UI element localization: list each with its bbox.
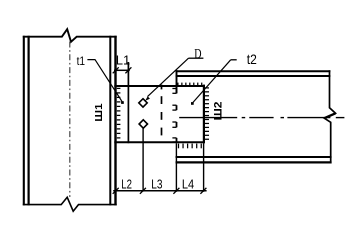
svg-text:Ш1: Ш1 xyxy=(94,103,105,121)
svg-text:Ш2: Ш2 xyxy=(213,102,224,121)
svg-text:D: D xyxy=(194,46,201,62)
svg-text:L4: L4 xyxy=(182,176,195,191)
svg-text:t1: t1 xyxy=(77,55,85,68)
svg-text:L2: L2 xyxy=(121,178,132,192)
svg-text:t2: t2 xyxy=(247,51,257,67)
svg-text:L3: L3 xyxy=(151,177,162,191)
svg-text:L1: L1 xyxy=(116,53,130,68)
